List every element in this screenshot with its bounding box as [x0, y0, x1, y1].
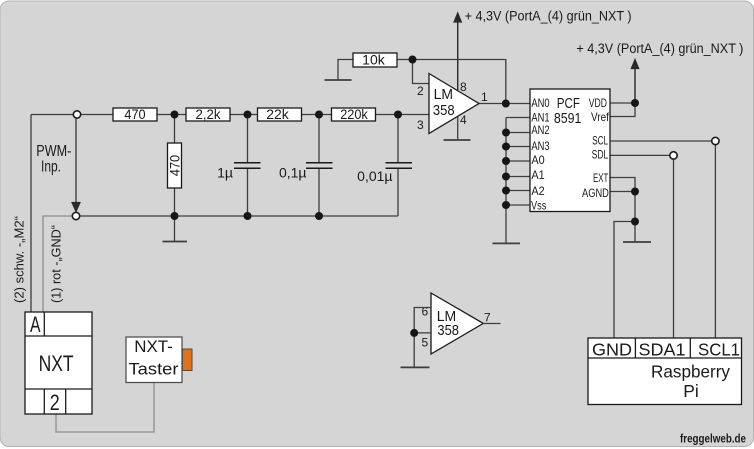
svg-text:Raspberry: Raspberry [651, 362, 730, 382]
svg-text:PCF: PCF [557, 96, 580, 112]
ground (AGND) [623, 241, 651, 243]
wire C1 top lead [247, 115, 249, 163]
node connector SCL [712, 137, 719, 144]
Raspberry Pi block [588, 338, 742, 405]
wire C3 top lead [397, 115, 399, 163]
wire 10k to node [397, 59, 413, 61]
wire feedback top [413, 60, 506, 104]
junction dot R2-C1 [244, 111, 252, 119]
resistor R6 10k [353, 53, 397, 67]
svg-text:A1: A1 [531, 168, 545, 182]
ground (10k) [325, 79, 352, 81]
junction dot A0 [502, 157, 510, 165]
NXT block [25, 312, 92, 415]
wire AN2 stub [506, 132, 530, 134]
node connector PWM top [73, 111, 80, 118]
svg-text:+ 4,3V (PortA_(4) grün_NXT ): + 4,3V (PortA_(4) grün_NXT ) [465, 9, 632, 24]
wire op-amp output to AN0 [479, 103, 530, 105]
wire [230, 114, 258, 116]
svg-text:358: 358 [433, 103, 455, 119]
wire C2 top lead [318, 115, 320, 163]
node connector GND bottom [72, 212, 79, 219]
wire pin 4 to ground [457, 117, 459, 141]
svg-text:0,01µ: 0,01µ [357, 168, 392, 184]
svg-text:Pi: Pi [683, 381, 699, 401]
svg-text:470: 470 [124, 106, 145, 122]
ground (op-amp U1 pin 4) [444, 139, 471, 141]
wire 10k ground branch [338, 60, 353, 81]
NXT-Taster block [126, 337, 192, 383]
svg-text:0,1µ: 0,1µ [279, 165, 307, 181]
junction dot bottom rail C2 [315, 212, 323, 220]
svg-text:Vss: Vss [531, 198, 546, 212]
svg-text:2: 2 [50, 390, 60, 415]
junction dot bottom rail C1 [244, 212, 252, 220]
wire 470 vertical bottom lead [174, 188, 176, 216]
svg-text:(2) schw. -„M2“: (2) schw. -„M2“ [12, 216, 27, 303]
junction dot bottom rail 470 [171, 212, 179, 220]
junction dot AN2 [502, 129, 510, 137]
resistor R4 220k [332, 108, 376, 121]
svg-text:(1) rot -„GND“: (1) rot -„GND“ [49, 225, 64, 303]
wire [157, 114, 186, 116]
wire node to pin 2 [413, 60, 430, 84]
ground (U2) [401, 366, 430, 368]
svg-text:Taster: Taster [129, 359, 179, 378]
svg-text:8: 8 [460, 80, 467, 94]
svg-text:SDL: SDL [592, 148, 609, 162]
junction dot GND tap [631, 218, 639, 226]
svg-text:SCL1: SCL1 [698, 340, 740, 360]
capacitor C2 0,1u [306, 163, 333, 169]
svg-text:220k: 220k [340, 106, 369, 122]
svg-text:GND: GND [592, 340, 632, 360]
svg-text:2: 2 [417, 84, 424, 98]
wire left vertical M2 [30, 115, 32, 313]
svg-text:1µ: 1µ [217, 165, 233, 181]
junction dot output AN0 [502, 100, 510, 108]
wire 470 vertical top lead [174, 115, 176, 144]
junction dot R4-C3 [394, 111, 402, 119]
wire NXT port 2 to Taster [56, 383, 154, 433]
svg-text:AN2: AN2 [531, 123, 549, 137]
resistor R1 470 [113, 108, 157, 121]
resistor R3 22k [258, 108, 302, 121]
wire C1 bottom lead [247, 169, 249, 217]
svg-text:A0: A0 [531, 153, 545, 167]
wire GND tap to Pi [614, 222, 635, 339]
junction dot A1 [502, 173, 510, 181]
svg-text:1: 1 [481, 90, 488, 104]
wire C2 bottom lead [318, 169, 320, 217]
PWM arrow [72, 119, 80, 212]
button tab orange [183, 349, 193, 371]
arrow +4.3V no.2 [631, 60, 638, 104]
gray NXT connection wires [43, 216, 154, 432]
IC PCF8591 [530, 89, 610, 212]
wire SDL [610, 154, 670, 156]
svg-text:NXT-: NXT- [134, 337, 173, 356]
svg-text:AN0: AN0 [531, 96, 549, 110]
svg-text:10k: 10k [362, 52, 386, 68]
svg-text:freggelweb.de: freggelweb.de [680, 434, 746, 446]
svg-text:2,2k: 2,2k [196, 106, 222, 122]
svg-text:SCL: SCL [592, 133, 608, 147]
junction dot AN3 [502, 143, 510, 151]
node connector SDL [670, 152, 677, 159]
resistor R5 470 vertical [168, 143, 182, 188]
svg-text:Vref: Vref [591, 110, 609, 124]
wire AN3 stub [506, 146, 530, 148]
resistor R2 2,2k [186, 108, 230, 121]
svg-text:AGND: AGND [582, 186, 609, 200]
wire C3 bottom lead [397, 169, 399, 217]
wire +4.3V arrow 2 riser [634, 64, 636, 103]
wire U2 to ground [413, 333, 415, 368]
wire SDA1 down [673, 159, 675, 338]
svg-text:470: 470 [167, 155, 183, 176]
wire to pin 3 [375, 114, 430, 116]
junction dot R3-C2 [315, 111, 323, 119]
wire Vref riser [610, 103, 635, 117]
op-amp U1 LM358 [429, 74, 479, 134]
wire ground lead under bottom rail [174, 216, 176, 242]
wire AN bus vertical [505, 118, 507, 244]
wire U2 output stub pin 7 [483, 323, 501, 325]
junction dot Vss [502, 201, 510, 209]
op-amp U2 LM358 [431, 293, 483, 354]
svg-text:358: 358 [437, 323, 459, 339]
wire AGND to ground [634, 192, 636, 243]
wire SCL1 down [714, 145, 716, 338]
wire bottom rail [80, 215, 398, 217]
junction dot AGND [631, 188, 639, 196]
wire GND gray from NXT [43, 216, 72, 312]
wire U2 pin 5 [414, 332, 431, 334]
wire U2 pin 6 [414, 308, 431, 333]
svg-text:EXT: EXT [593, 171, 609, 185]
wire AGND [610, 191, 635, 193]
svg-text:A: A [30, 312, 41, 337]
wire SCL [610, 140, 712, 142]
svg-text:VDD: VDD [589, 96, 607, 110]
junction dot R1-R5 [171, 111, 179, 119]
ground (AN bus / Vss) [493, 242, 521, 244]
svg-text:7: 7 [484, 311, 491, 325]
wire EXT [610, 178, 635, 192]
wire VDD to node [610, 102, 635, 104]
junction dot VDD [631, 99, 639, 107]
wire top rail [31, 114, 74, 116]
wire A2 stub [506, 190, 530, 192]
wire pin 8 to +4.3V [457, 20, 459, 91]
svg-text:LM: LM [434, 87, 453, 103]
junction U2 pins 5-6 [410, 329, 418, 337]
wire A1 stub [506, 176, 530, 178]
capacitor C3 0,01u [386, 163, 413, 169]
capacitor C1 1u [234, 163, 261, 169]
svg-text:NXT: NXT [39, 351, 74, 376]
svg-text:Inp.: Inp. [41, 158, 61, 175]
ground (bottom rail) [163, 241, 188, 243]
svg-text:8591: 8591 [554, 111, 582, 127]
wire A0 stub [506, 160, 530, 162]
svg-text:4: 4 [460, 113, 467, 127]
svg-text:SDA1: SDA1 [639, 340, 686, 360]
svg-text:+ 4,3V (PortA_(4) grün_NXT ): + 4,3V (PortA_(4) grün_NXT ) [576, 41, 743, 56]
svg-text:5: 5 [422, 336, 429, 350]
wire AN1 stub [506, 117, 530, 119]
svg-text:3: 3 [417, 118, 424, 132]
svg-text:AN3: AN3 [531, 139, 549, 153]
svg-text:22k: 22k [266, 106, 289, 122]
junction dot 10k feedback node [409, 56, 417, 64]
svg-text:A2: A2 [531, 184, 545, 198]
arrow +4.3V no.1 [454, 13, 461, 91]
junction dot A2 [502, 187, 510, 195]
wire Vss stub [506, 204, 530, 206]
svg-text:6: 6 [422, 305, 429, 319]
wire [302, 114, 332, 116]
wire [81, 114, 113, 116]
